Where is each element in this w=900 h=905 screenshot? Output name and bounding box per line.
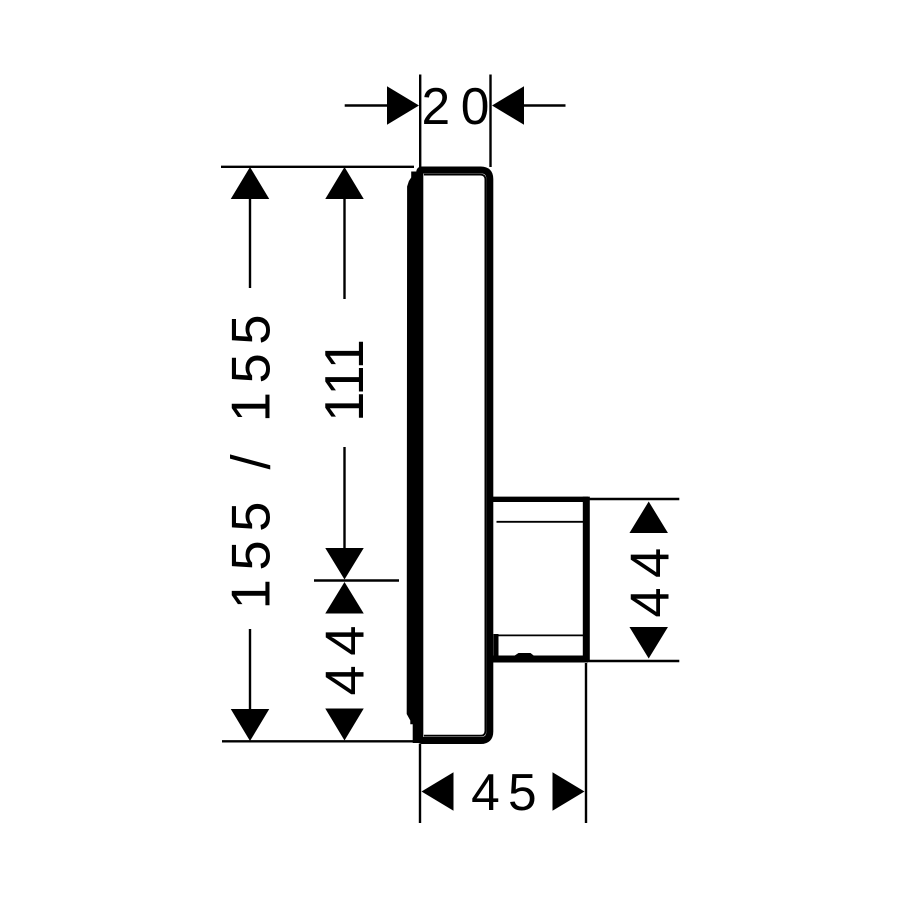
dim 20: left arrowhead	[387, 86, 419, 125]
svg-text:44: 44	[619, 538, 680, 617]
dim 44 left: top arrowhead (lower half of bow-tie)	[325, 582, 364, 614]
dim 111: lower tail	[343, 447, 345, 548]
dim 155: upper tail	[249, 199, 251, 288]
dim 155: lower tail	[249, 629, 251, 709]
svg-text:111: 111	[314, 339, 375, 422]
svg-text:20: 20	[422, 77, 500, 135]
valve body inner thin line upper	[497, 521, 584, 523]
svg-text:45: 45	[471, 763, 545, 821]
dim 20: right arrowhead	[492, 86, 524, 125]
valve body right edge	[583, 497, 590, 662]
dim 20: right arrow tail	[523, 104, 566, 106]
dim 45: left extension line	[419, 744, 421, 823]
dim 45: right extension line	[585, 663, 587, 823]
dim 155: top arrowhead	[231, 167, 270, 199]
small bump on valve body bottom edge	[513, 653, 536, 657]
dim 44 right: top extension line	[588, 498, 679, 500]
plate inner thin contour	[424, 175, 486, 736]
dim 44 left: bottom arrowhead	[325, 709, 364, 741]
dim 44 right: bottom extension line	[588, 660, 679, 662]
dim 45: left arrowhead	[422, 772, 454, 811]
dim 111: top arrowhead	[325, 167, 364, 199]
top extension line (y=166.8) for 155/111 dims	[221, 166, 414, 168]
dim 20: left arrow tail	[345, 104, 388, 106]
dim 155: bottom arrowhead	[231, 709, 270, 741]
shared tick line at valve centerline	[314, 579, 399, 581]
dim 20: left extension line	[419, 75, 421, 169]
dim 111: upper tail	[343, 199, 345, 299]
svg-text:44: 44	[315, 616, 376, 695]
wall-side flange (black bar, left of plate)	[407, 172, 423, 744]
dim 44 right: top arrowhead	[629, 502, 668, 534]
dim 111: bottom arrowhead (upper half of bow-tie)	[325, 548, 364, 580]
dim 20: right extension line	[489, 75, 491, 168]
valve body top edge	[490, 497, 588, 502]
valve body bottom edge	[490, 656, 588, 663]
dim 45: right arrowhead	[553, 772, 585, 811]
valve body lower-left wall segment	[494, 634, 499, 660]
svg-text:155 / 155: 155 / 155	[220, 306, 281, 609]
bottom extension line (y=741.3)	[222, 740, 413, 742]
valve body inner thin line lower	[497, 634, 584, 636]
escutcheon plate outline (side view, rounded rect)	[420, 170, 490, 741]
dim 44 right: bottom arrowhead	[629, 627, 668, 659]
